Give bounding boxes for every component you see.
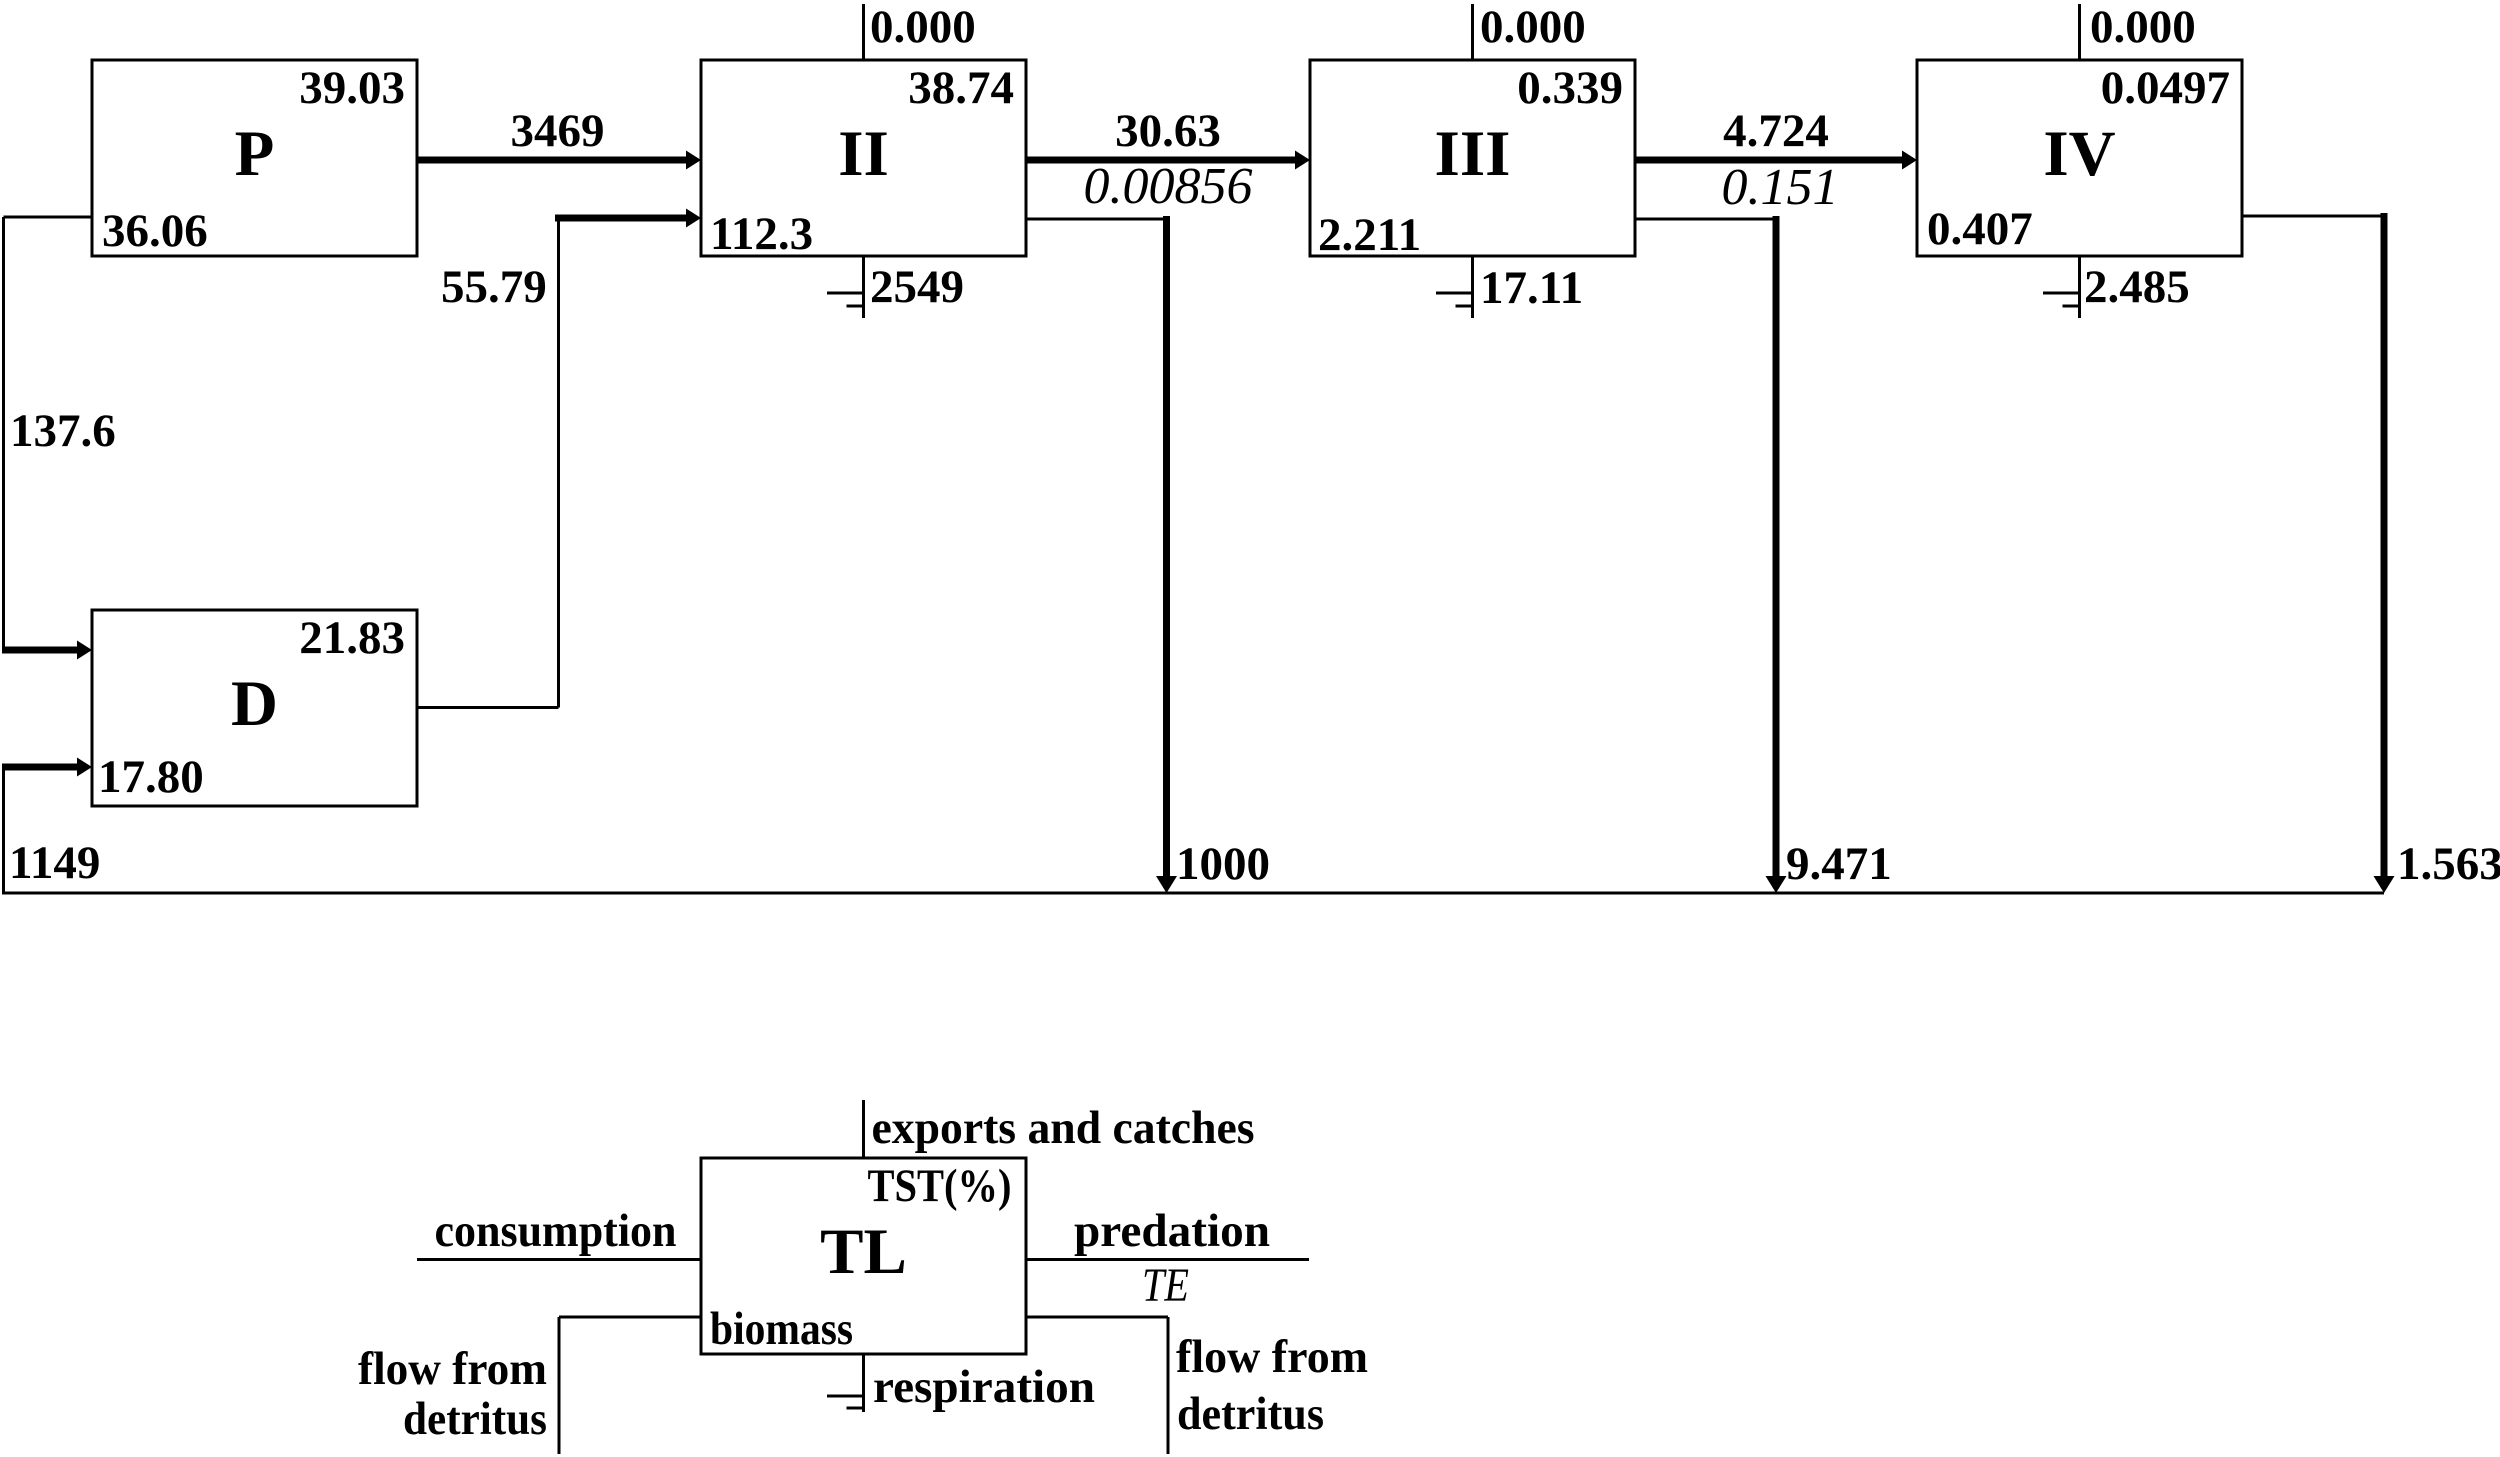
legend export line above TL	[862, 1100, 865, 1158]
arrow into D flow from P	[2, 647, 79, 654]
svg-text:flow from: flow from	[358, 1343, 547, 1395]
svg-text:3469: 3469	[511, 105, 605, 157]
svg-text:biomass: biomass	[710, 1303, 853, 1355]
box III	[1310, 60, 1635, 256]
wire return riser up to D	[2, 767, 5, 893]
svg-text:TE: TE	[1142, 1259, 1189, 1312]
svg-text:0.407: 0.407	[1927, 203, 2033, 255]
svg-text:0.000: 0.000	[2090, 1, 2196, 53]
box II	[701, 60, 1026, 256]
respiration symbol under IV	[2043, 256, 2081, 318]
export line above box III	[1471, 4, 1474, 60]
svg-text:1.563: 1.563	[2397, 838, 2500, 890]
arrow P to II flow 3469	[417, 157, 688, 164]
wire down from III flow 9.471	[1773, 216, 1780, 878]
export line above box II	[862, 4, 865, 60]
svg-text:IV: IV	[2043, 118, 2115, 190]
legend flow-from-detritus line left	[559, 1317, 701, 1454]
svg-text:TST(%): TST(%)	[868, 1160, 1012, 1212]
svg-text:0.0497: 0.0497	[2101, 62, 2230, 114]
svg-text:detritus: detritus	[403, 1393, 547, 1445]
wire riser up flow 55.79	[557, 218, 560, 708]
svg-text:30.63: 30.63	[1115, 105, 1221, 157]
svg-text:flow from: flow from	[1176, 1331, 1368, 1383]
svg-text:0.151: 0.151	[1722, 159, 1839, 216]
svg-text:P: P	[235, 118, 275, 190]
box D	[92, 610, 417, 806]
svg-text:137.6: 137.6	[10, 405, 116, 457]
svg-text:9.471: 9.471	[1786, 838, 1892, 890]
wire II lower-right exit	[1026, 218, 1167, 221]
svg-text:2549: 2549	[870, 261, 964, 313]
svg-text:17.80: 17.80	[98, 751, 204, 803]
arrow into D return flow	[2, 764, 79, 771]
svg-text:2.485: 2.485	[2084, 261, 2190, 313]
svg-text:consumption: consumption	[435, 1205, 677, 1257]
svg-text:112.3: 112.3	[710, 208, 813, 260]
legend predation line	[1026, 1258, 1309, 1261]
wire down from IV flow 1.563	[2381, 213, 2388, 878]
svg-text:III: III	[1435, 118, 1511, 190]
svg-text:0.00856: 0.00856	[1084, 158, 1253, 215]
svg-text:21.83: 21.83	[299, 612, 405, 664]
wire IV lower-right exit	[2242, 215, 2384, 218]
svg-text:predation: predation	[1074, 1205, 1270, 1257]
svg-text:detritus: detritus	[1177, 1388, 1324, 1440]
svg-text:55.79: 55.79	[441, 261, 547, 313]
svg-text:39.03: 39.03	[299, 62, 405, 114]
legend consumption line	[417, 1258, 701, 1261]
svg-text:II: II	[838, 118, 889, 190]
respiration symbol under III	[1436, 256, 1474, 318]
respiration symbol under II	[827, 256, 865, 318]
wire down left margin flow 137.6	[2, 217, 5, 650]
legend flow-from-detritus line right	[1026, 1317, 1168, 1454]
box P	[92, 60, 417, 256]
wire bottom return line flow 1149	[2, 892, 2384, 895]
svg-text:D: D	[231, 668, 278, 740]
wire down from II flow 1000	[1163, 216, 1170, 878]
svg-text:respiration: respiration	[873, 1361, 1095, 1413]
arrow into II flow from D	[555, 215, 688, 222]
svg-text:0.000: 0.000	[1480, 1, 1586, 53]
box TL legend	[701, 1158, 1026, 1354]
svg-text:17.11: 17.11	[1480, 262, 1583, 314]
arrow II to III flow 30.63	[1026, 157, 1297, 164]
legend respiration symbol under TL	[827, 1354, 865, 1412]
svg-text:0.000: 0.000	[870, 1, 976, 53]
svg-text:TL: TL	[820, 1216, 907, 1288]
svg-text:2.211: 2.211	[1318, 209, 1421, 261]
svg-text:exports and catches: exports and catches	[872, 1102, 1255, 1154]
wire P bottom-left to margin	[4, 216, 93, 219]
svg-text:1149: 1149	[9, 837, 100, 889]
svg-text:4.724: 4.724	[1723, 105, 1829, 157]
box IV	[1917, 60, 2242, 256]
svg-text:36.06: 36.06	[102, 205, 208, 257]
svg-text:0.339: 0.339	[1517, 62, 1623, 114]
svg-text:38.74: 38.74	[908, 62, 1014, 114]
export line above box IV	[2078, 4, 2081, 60]
arrow III to IV flow 4.724	[1635, 157, 1904, 164]
wire III lower-right exit	[1635, 218, 1776, 221]
svg-text:1000: 1000	[1176, 838, 1270, 890]
wire D right to riser	[417, 706, 559, 709]
